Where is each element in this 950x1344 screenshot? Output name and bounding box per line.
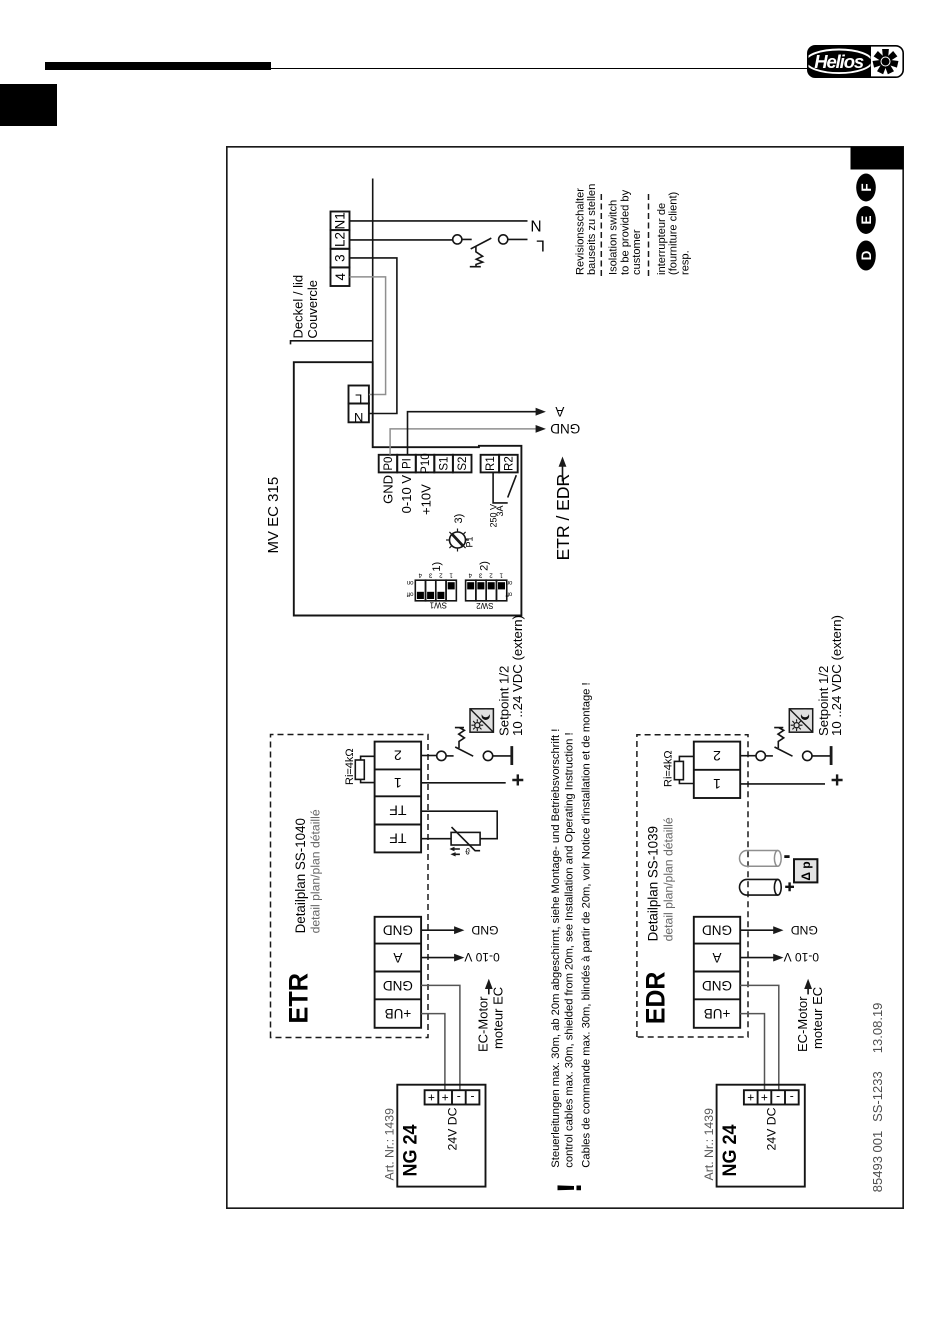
GND output arrow (ETR) [421, 929, 457, 931]
wire terminal 1 to + [421, 782, 506, 784]
switch spring actuator [470, 246, 483, 266]
svg-text:1: 1 [394, 775, 402, 791]
MV terminal strip R1 R2 [481, 455, 518, 473]
svg-text:GND: GND [383, 978, 413, 993]
svg-text:2): 2) [478, 561, 490, 571]
svg-text:Revisionsschalter: Revisionsschalter [575, 188, 587, 275]
svg-text:+UB: +UB [704, 1006, 731, 1021]
dashed separator 1 [600, 191, 602, 277]
wire GND to NG24 (ETR) [421, 985, 460, 1090]
EDR terminal strip 1 2 [694, 742, 740, 798]
svg-text:customer: customer [631, 229, 643, 275]
svg-text:Helios: Helios [814, 51, 864, 72]
svg-text:2: 2 [394, 748, 402, 764]
header thin rule [45, 68, 808, 69]
svg-text:0-10 V: 0-10 V [784, 950, 819, 964]
EC-Motor arrow (ETR) [476, 979, 506, 1052]
ETR setpoint switch chain from terminal 2 [421, 728, 512, 765]
svg-text:moteur EC: moteur EC [491, 987, 506, 1049]
plus symbol (EDR) [832, 774, 843, 785]
label + [785, 882, 794, 891]
svg-text:L2: L2 [333, 232, 348, 247]
svg-text:Art. Nr.: 1439: Art. Nr.: 1439 [702, 1108, 716, 1181]
svg-text:Steuerleitungen max. 30m, ab 2: Steuerleitungen max. 30m, ab 20m abgesch… [550, 729, 562, 1168]
svg-text:3: 3 [428, 572, 432, 579]
svg-text:1: 1 [449, 572, 453, 579]
wire PI to A arrow [408, 412, 539, 455]
power supply NG 24 (EDR) [702, 1085, 805, 1187]
svg-text:3: 3 [478, 572, 482, 579]
language badge E [856, 206, 876, 234]
thermistor body [451, 832, 480, 845]
svg-text:4: 4 [418, 572, 422, 579]
svg-text:+10V: +10V [418, 484, 433, 515]
svg-text:off: off [505, 591, 512, 597]
svg-text:GND: GND [383, 923, 413, 938]
svg-text:10 ..24 VDC (extern): 10 ..24 VDC (extern) [829, 615, 844, 736]
svg-text:GND: GND [471, 923, 498, 937]
svg-text:Isolation switch: Isolation switch [608, 200, 620, 275]
pressure tube plus [739, 879, 781, 895]
ground bar [830, 746, 833, 765]
svg-text:0-10 V: 0-10 V [399, 475, 414, 514]
svg-text:24V DC: 24V DC [765, 1107, 779, 1150]
resistor Ri=4kOhm (EDR) [662, 750, 694, 787]
svg-text:NG 24: NG 24 [719, 1124, 741, 1176]
svg-text:SW1: SW1 [429, 601, 447, 610]
wire +UB to NG24 (ETR) [421, 1014, 445, 1091]
ETR strip +UB GND A GND [375, 917, 422, 1028]
ETR dashed box [271, 735, 429, 1038]
svg-text:Δ p: Δ p [799, 861, 813, 880]
svg-text:-: - [776, 1090, 780, 1104]
svg-text:SW2: SW2 [476, 601, 494, 610]
svg-text:F: F [859, 183, 874, 191]
wire +UB to NG24 (EDR) [740, 1014, 764, 1091]
wire terminal 3 to N box [349, 258, 397, 414]
svg-text:ETR: ETR [283, 973, 313, 1024]
svg-text:Cables de commande max. 30m, b: Cables de commande max. 30m, blindés à p… [580, 682, 592, 1167]
fan icon [873, 49, 899, 74]
svg-text:2: 2 [489, 572, 493, 579]
TF sensor circuit [421, 811, 497, 856]
svg-text:3: 3 [333, 254, 348, 262]
EDR dashed box [637, 735, 748, 1037]
svg-text:1: 1 [713, 776, 721, 792]
svg-text:MV EC 315: MV EC 315 [265, 477, 282, 554]
MV EC 315 box [294, 362, 522, 615]
svg-text:EC-Motor: EC-Motor [476, 996, 491, 1052]
ground bar [510, 746, 513, 765]
mains terminal strip 4 3 L2 N1 [331, 212, 350, 287]
arrowhead A [536, 408, 546, 416]
wire terminal 4 to L box (gray) [350, 277, 386, 395]
svg-text:P10: P10 [420, 453, 432, 473]
svg-text:4: 4 [468, 572, 472, 579]
dashed separator 2 [648, 191, 650, 277]
EDR setpoint switch chain from terminal 2 [740, 728, 831, 765]
DIP switch SW1 [407, 572, 457, 610]
svg-text:GND: GND [791, 923, 818, 937]
theta arrows [453, 849, 460, 854]
svg-text:S1: S1 [439, 457, 451, 471]
document number [870, 1003, 885, 1193]
svg-text:on: on [407, 579, 414, 585]
svg-text:A: A [555, 404, 564, 419]
delta-p sensor box [794, 859, 817, 882]
GND output arrow (EDR) [740, 929, 776, 931]
svg-text:3A: 3A [495, 505, 505, 516]
label 250V 3A [488, 504, 505, 528]
label Setpoint (EDR) [816, 615, 844, 736]
ETR terminal strip TF TF 1 2 [375, 742, 422, 853]
svg-text:to be provided by: to be provided by [619, 189, 631, 275]
rotated landscape diagram wrapper [226, 146, 904, 1209]
0-10V output arrow (ETR) [421, 957, 457, 959]
plus symbol [512, 774, 523, 785]
svg-text:R2: R2 [503, 456, 515, 471]
svg-text:GND: GND [702, 978, 732, 993]
svg-text:-: - [471, 1090, 475, 1104]
svg-text:Detailplan SS-1040: Detailplan SS-1040 [293, 818, 308, 933]
svg-text:EC-Motor: EC-Motor [795, 996, 810, 1052]
svg-text:control cables max. 30m, shiel: control cables max. 30m, shielded from 2… [563, 732, 575, 1167]
corner marker box [851, 147, 904, 170]
spring actuator [455, 728, 465, 748]
svg-text:D: D [859, 250, 874, 260]
svg-text:GND: GND [550, 421, 580, 436]
svg-text:N: N [354, 410, 363, 425]
svg-text:TF: TF [389, 831, 406, 847]
svg-text:2: 2 [713, 748, 721, 764]
svg-text:NG 24: NG 24 [400, 1124, 422, 1176]
svg-text:E: E [859, 215, 874, 224]
arrowhead GND [536, 425, 546, 433]
label Setpoint [497, 615, 525, 736]
svg-text:Deckel / lid: Deckel / lid [291, 275, 306, 339]
svg-text:A: A [393, 950, 402, 965]
svg-text:SS-1233: SS-1233 [870, 1071, 885, 1122]
svg-text:1: 1 [499, 572, 503, 579]
relay contact R1 R2 [493, 472, 516, 503]
wire terminal 1 to + (EDR) [740, 783, 825, 785]
svg-text:P0: P0 [383, 457, 395, 471]
svg-text:N1: N1 [333, 212, 348, 229]
Helios logo [807, 45, 904, 83]
svg-text:Art. Nr.: 1439: Art. Nr.: 1439 [383, 1108, 397, 1181]
svg-text:resp.: resp. [679, 250, 691, 275]
svg-text:R1: R1 [485, 456, 497, 471]
language badge F [856, 174, 876, 202]
wire GND to NG24 (EDR) [740, 985, 779, 1090]
svg-text:1): 1) [431, 562, 443, 572]
svg-text:(fourniture client): (fourniture client) [667, 192, 679, 275]
svg-text:10 ..24 VDC (extern): 10 ..24 VDC (extern) [510, 615, 525, 736]
label Deckel / lid / Couvercle [291, 275, 321, 339]
svg-text:L: L [536, 237, 545, 254]
header thick bar [45, 62, 271, 70]
warning note [550, 682, 592, 1193]
svg-text:L: L [355, 392, 362, 407]
svg-text:interrupteur de: interrupteur de [656, 203, 668, 275]
svg-text:0-10 V: 0-10 V [464, 950, 499, 964]
svg-text:GND: GND [702, 923, 732, 938]
svg-text:+UB: +UB [385, 1006, 412, 1021]
isolation switch [453, 235, 528, 267]
wire N1 to N [350, 220, 528, 222]
svg-text:Detailplan SS-1039: Detailplan SS-1039 [646, 826, 661, 941]
svg-text:4: 4 [333, 272, 348, 280]
svg-text:TF: TF [389, 803, 406, 819]
wire P0 to GND arrow (gray) [390, 429, 538, 455]
pressure tube minus (gray) [739, 851, 781, 867]
svg-text:GND: GND [381, 475, 396, 504]
svg-text:Couvercle: Couvercle [305, 280, 320, 339]
EDR strip +UB GND A GND [694, 917, 740, 1028]
day/night setpoint icon (ETR) [470, 709, 493, 732]
svg-text:moteur EC: moteur EC [810, 987, 825, 1049]
wire L2 to switch [350, 239, 453, 241]
svg-text:-: - [790, 1090, 794, 1104]
ETR / EDR pointer [553, 457, 573, 561]
notes block right [575, 184, 692, 275]
DIP switch SW2 [466, 572, 513, 610]
0-10V output arrow (EDR) [740, 957, 776, 959]
svg-text:24V DC: 24V DC [445, 1107, 459, 1150]
potentiometer P1 [446, 529, 469, 552]
lid boundary line [291, 179, 373, 363]
label - [784, 855, 789, 858]
language badge D [856, 241, 876, 271]
N L box pair [349, 386, 369, 425]
svg-text:+: + [428, 1090, 435, 1104]
svg-text:ϑ: ϑ [465, 846, 470, 856]
labels GND 0-10V +10V [381, 475, 434, 515]
day/night setpoint icon (EDR) [789, 709, 812, 732]
svg-text:detail plan/plan détaillé: detail plan/plan détaillé [662, 817, 676, 941]
svg-text:P1: P1 [465, 536, 475, 547]
svg-text:2: 2 [439, 572, 443, 579]
svg-text:13.08.19: 13.08.19 [870, 1003, 885, 1054]
svg-text:PI: PI [402, 458, 414, 469]
MV terminal strip P0 PI P10 S1 S2 [379, 453, 472, 473]
spring actuator [774, 728, 784, 748]
thermistor strike [452, 827, 481, 851]
svg-text:on: on [506, 579, 513, 585]
svg-text:S2: S2 [457, 457, 469, 471]
power supply NG 24 (ETR) [383, 1085, 486, 1187]
svg-text:!: ! [551, 1182, 589, 1193]
svg-text:+: + [442, 1090, 449, 1104]
svg-text:85493 001: 85493 001 [870, 1131, 885, 1192]
svg-text:detail plan/plan détaillé: detail plan/plan détaillé [309, 809, 323, 933]
svg-text:bauseits zu stellen: bauseits zu stellen [586, 184, 598, 275]
svg-text:+: + [761, 1090, 768, 1104]
svg-text:-: - [457, 1090, 461, 1104]
left margin black square [0, 84, 57, 126]
svg-text:+: + [747, 1090, 754, 1104]
border frame [227, 147, 903, 1208]
svg-text:EDR: EDR [640, 972, 670, 1025]
svg-text:off: off [407, 591, 414, 597]
resistor Ri=4kOhm (ETR) [344, 748, 375, 785]
svg-text:Ri=4kΩ: Ri=4kΩ [344, 748, 356, 785]
svg-text:ETR / EDR: ETR / EDR [553, 474, 573, 561]
svg-text:N: N [530, 217, 541, 234]
svg-text:A: A [712, 950, 721, 965]
svg-text:Ri=4kΩ: Ri=4kΩ [662, 750, 674, 787]
svg-text:3): 3) [453, 514, 465, 524]
EC-Motor arrow (EDR) [795, 979, 825, 1052]
